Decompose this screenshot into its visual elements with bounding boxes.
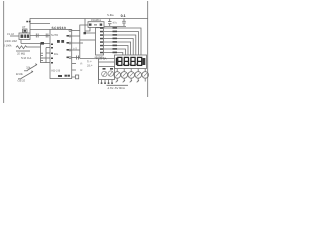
svg-text:CD4011: CD4011: [91, 18, 101, 22]
svg-text:1/2W 10M: 1/2W 10M: [5, 40, 18, 43]
svg-text:32k: 32k: [26, 66, 31, 69]
svg-text:0.1: 0.1: [121, 14, 126, 18]
svg-text:47u: 47u: [113, 22, 118, 25]
svg-text:XT: XT: [22, 26, 26, 29]
svg-text:abcdefg: abcdefg: [95, 56, 105, 59]
svg-text:HT: HT: [74, 47, 78, 50]
svg-text:S·Ba: S·Ba: [107, 13, 114, 17]
svg-text:25 MΩ: 25 MΩ: [17, 52, 25, 55]
svg-text:Tr↗: Tr↗: [87, 60, 92, 63]
svg-text:GB 25: GB 25: [18, 79, 26, 82]
svg-text:DIL: DIL: [54, 53, 59, 56]
svg-text:4.5V~6V 8mA: 4.5V~6V 8mA: [108, 86, 125, 90]
svg-text:SC8560: SC8560: [52, 26, 67, 30]
svg-text:J 100k: J 100k: [4, 44, 13, 47]
svg-text:B 50k: B 50k: [16, 73, 24, 76]
svg-text:C1 10: C1 10: [7, 33, 15, 36]
svg-text:KD-2 B: KD-2 B: [52, 69, 61, 72]
svg-text:S M H A: S M H A: [21, 56, 31, 60]
svg-text:2S↗: 2S↗: [87, 64, 93, 67]
svg-text:5x/TH: 5x/TH: [51, 34, 58, 37]
svg-text:R: R: [81, 69, 83, 72]
svg-text:R: R: [81, 63, 83, 66]
